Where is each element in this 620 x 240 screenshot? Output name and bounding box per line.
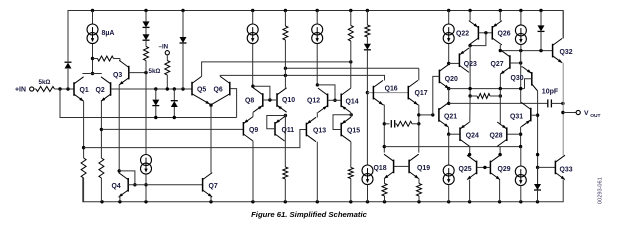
wire Q16 collector — [384, 75, 386, 80]
wire Q25 Q29 base tie — [477, 166, 491, 168]
wire mirror line right — [285, 67, 418, 69]
transistor Q32 — [552, 44, 554, 58]
svg-text:Q30: Q30 — [511, 75, 524, 82]
wire right bias column — [520, 51, 522, 103]
collector bus Q1 Q2 — [82, 73, 101, 75]
wire Q26 emitter to bus — [499, 45, 501, 51]
wire Q30 base drop — [525, 79, 532, 89]
transistor Q2 — [110, 82, 112, 96]
rail junction — [499, 9, 502, 12]
svg-text:Q1: Q1 — [80, 87, 89, 94]
wire Q2 emitter leg — [100, 101, 102, 158]
rail junction — [447, 200, 450, 203]
transistor Q3 — [128, 66, 130, 80]
rail junction — [536, 200, 539, 203]
wire Q13 collector to rail — [316, 142, 318, 202]
wire Q32 base bus — [500, 50, 552, 52]
wire Q4 base to Q7 base — [128, 184, 202, 186]
transistor Q18 — [393, 160, 395, 174]
wire — [34, 88, 36, 90]
wire Q12-Q13 emitter join — [316, 112, 318, 117]
svg-text:OUT: OUT — [590, 113, 600, 119]
svg-text:Q27: Q27 — [491, 61, 504, 68]
wire Q11 base loop — [267, 116, 286, 129]
svg-text:Q32: Q32 — [560, 49, 573, 56]
wire Q12 diode loop — [317, 85, 335, 100]
VOUT terminal — [563, 112, 576, 114]
svg-text:Q2: Q2 — [96, 87, 105, 94]
svg-text:Q24: Q24 — [466, 133, 479, 140]
wire Q31 emitter column — [520, 127, 522, 147]
rail junction — [144, 200, 147, 203]
svg-text:Q13: Q13 — [313, 128, 326, 135]
rail junction — [349, 9, 352, 12]
wire Q4 diode connection — [119, 171, 135, 185]
transistor Q1 — [73, 82, 75, 96]
current source third — [316, 11, 318, 25]
wire Q9 collector to rail — [252, 141, 254, 202]
wire — [55, 88, 75, 90]
wire Q21 collector — [448, 89, 450, 103]
transistor Q7 — [202, 178, 204, 192]
resistor and diode rail x367 — [366, 11, 368, 26]
capacitor compensation network — [384, 123, 389, 125]
wire Q16 emitter column — [383, 104, 384, 106]
svg-text:Q15: Q15 — [347, 128, 360, 135]
svg-text:Q22: Q22 — [456, 31, 469, 38]
wire Q17 emitter column — [417, 104, 420, 106]
svg-text:Q6: Q6 — [214, 86, 223, 93]
svg-text:Q33: Q33 — [560, 166, 573, 173]
rail junction — [100, 200, 103, 203]
wire left output column mid — [469, 96, 471, 122]
node Q20 collector — [447, 62, 450, 65]
rail junction — [539, 9, 542, 12]
wire Q8 Q10 base tie — [263, 99, 277, 101]
svg-text:Q8: Q8 — [245, 98, 254, 105]
transistor Q8 — [262, 93, 264, 107]
node Q1 degeneration tap — [82, 146, 85, 149]
transistor Q26 — [491, 26, 493, 40]
wire Q22 Q26 base tie — [478, 32, 492, 34]
diode rail chain 2 — [182, 11, 184, 38]
current source tail left — [141, 155, 152, 166]
transistor Q23 — [458, 53, 460, 67]
svg-text:Q26: Q26 — [498, 31, 511, 38]
svg-text:Q20: Q20 — [445, 76, 458, 83]
current source fourth lower — [362, 165, 373, 176]
+IN terminal — [30, 87, 34, 91]
rail junction — [366, 200, 369, 203]
wire Q4 emitter — [119, 196, 120, 198]
diode input clamp left — [67, 69, 69, 89]
wire Q15 collector leg — [350, 142, 352, 168]
wire Q21 emitter — [448, 127, 450, 134]
current source second — [252, 11, 254, 25]
transistor Q5 — [191, 82, 193, 96]
wire Q20 base loop — [433, 76, 440, 115]
diode base clamp 2 — [173, 89, 175, 101]
wire Q11 emitter node — [284, 114, 287, 117]
wire Q8-Q9 emitter join — [252, 112, 254, 116]
wire Q21 leg to source — [448, 134, 450, 165]
wire Q24 base — [449, 133, 460, 135]
svg-text:Q18: Q18 — [374, 165, 387, 172]
transistor Q14 — [340, 94, 342, 108]
wire Q22 collector — [469, 11, 471, 21]
rail junction — [284, 200, 287, 203]
rail junction — [251, 200, 254, 203]
wire Q5 collector — [202, 62, 351, 77]
wire Q16 Q17 base line — [367, 92, 408, 94]
svg-text:Q31: Q31 — [510, 113, 523, 120]
svg-text:Q23: Q23 — [464, 61, 477, 68]
wire Q28 base — [507, 133, 521, 135]
transistor Q11 — [274, 122, 276, 136]
node Q2 degeneration tap — [100, 128, 103, 131]
rail junction — [447, 9, 450, 12]
wire Q30 emitter to column — [521, 66, 523, 68]
wire Q30 collector diagonal — [532, 84, 538, 91]
resistor 5k input + — [36, 87, 55, 92]
transistor Q13 — [305, 123, 307, 137]
resistor Q15 leg — [348, 168, 353, 179]
wire Q12 Q14 base tie — [328, 99, 342, 101]
wire Q33 base — [538, 166, 556, 168]
wire Q30 collector column — [537, 91, 539, 184]
node Q12 collector — [316, 83, 319, 86]
resistor Q2 emitter — [99, 158, 104, 178]
bottom V- rail — [83, 178, 563, 202]
transistor Q31 — [530, 108, 532, 122]
wire Q6 collector line — [220, 75, 384, 80]
transistor Q30 — [531, 72, 533, 86]
current source top right — [520, 11, 522, 26]
svg-text:Q5: Q5 — [197, 86, 206, 93]
wire Q18 Q19 base tie — [394, 165, 410, 167]
transistor Q17 — [407, 86, 409, 100]
resistor compensation network — [397, 121, 413, 126]
node Q4 collector — [118, 169, 121, 172]
rail junction — [316, 9, 319, 12]
svg-text:5kΩ: 5kΩ — [39, 79, 51, 86]
wire output column — [562, 63, 564, 155]
rail junction — [251, 9, 254, 12]
wire Q26 collector — [499, 11, 501, 21]
svg-text:Figure 61. Simplified Schemati: Figure 61. Simplified Schematic — [251, 210, 367, 219]
svg-text:Q11: Q11 — [282, 127, 295, 134]
wire Q15 base loop — [333, 115, 351, 130]
rail junction — [209, 200, 212, 203]
svg-text:00293-061: 00293-061 — [598, 177, 604, 204]
rail junction — [144, 9, 147, 12]
wire Q17 collector — [418, 68, 420, 80]
rail junction — [316, 200, 319, 203]
wire Q22 base loop — [470, 33, 486, 46]
node Q4 base tap — [144, 183, 147, 186]
transistor Q33 — [554, 161, 556, 175]
transistor Q29 — [489, 161, 491, 175]
wire Q5 Q6 emitters — [192, 94, 211, 105]
svg-text:–IN: –IN — [159, 44, 169, 51]
wire chain down — [145, 73, 147, 155]
diode base clamp 1 — [155, 89, 157, 100]
svg-text:Q16: Q16 — [385, 85, 398, 92]
svg-text:Q10: Q10 — [282, 97, 295, 104]
transistor Q28 — [506, 127, 508, 141]
wire Q1 emitter leg — [83, 101, 85, 158]
top V+ rail — [68, 11, 563, 63]
resistor output block — [470, 95, 477, 97]
node Q15 emitter — [350, 113, 353, 116]
rail junction — [468, 9, 471, 12]
resistor Q18 emitter — [383, 178, 386, 180]
svg-text:5kΩ: 5kΩ — [149, 68, 161, 75]
diode lower right — [537, 167, 539, 184]
transistor Q19 — [408, 160, 410, 174]
wire Q17-Q20 base bridge — [419, 114, 433, 116]
current source seventh lower — [515, 166, 526, 177]
wire Q6 base loop — [230, 89, 237, 118]
svg-text:Q29: Q29 — [498, 166, 511, 173]
svg-text:Q7: Q7 — [209, 183, 218, 190]
rail junction — [181, 9, 184, 12]
wire stage bias line y146 — [384, 146, 520, 148]
wire Q3 base — [129, 72, 146, 74]
transistor Q9 — [242, 122, 244, 136]
diode top right — [540, 11, 542, 26]
node Q8 collector — [251, 85, 254, 88]
rail junction — [118, 200, 121, 203]
resistor rail x351 — [350, 11, 352, 26]
svg-text:Q17: Q17 — [415, 90, 428, 97]
wire Q28 column join — [499, 146, 501, 154]
wire Q25 collector to rail — [469, 180, 471, 202]
rail junction — [417, 200, 420, 203]
wire second bias line to Q9 — [101, 128, 243, 130]
wire Q31 base — [531, 114, 538, 116]
svg-text:Q4: Q4 — [112, 183, 121, 190]
resistor Q11 leg — [283, 167, 288, 179]
resistor rail x285 — [284, 11, 286, 27]
wire compensation cap line — [449, 102, 548, 104]
resistor 5k input - — [166, 55, 168, 61]
transistor Q15 — [340, 123, 342, 137]
rail junction — [519, 200, 522, 203]
transistor Q24 — [459, 127, 461, 141]
transistor Q16 — [372, 86, 374, 100]
transistor Q21 — [438, 108, 440, 122]
svg-text:Q14: Q14 — [346, 98, 359, 105]
resistor Q1 emitter — [81, 158, 86, 178]
svg-text:V: V — [584, 110, 589, 117]
svg-text:8µA: 8µA — [102, 30, 115, 37]
svg-text:10pF: 10pF — [542, 88, 559, 95]
rail junction — [519, 9, 522, 12]
node Q20 emitter — [447, 87, 450, 90]
svg-text:Q21: Q21 — [444, 113, 457, 120]
wire Q3 emitter column — [118, 85, 120, 171]
wire Q27 base — [510, 62, 521, 64]
transistor Q25 — [476, 161, 478, 175]
wire Q32 collector — [562, 11, 564, 39]
svg-text:Q25: Q25 — [459, 166, 472, 173]
wire emitter bias line right block — [449, 88, 525, 90]
wire -IN base line — [111, 88, 192, 90]
wire first-stage bias to Q13 — [84, 130, 307, 148]
-IN terminal — [165, 51, 169, 55]
node +IN base — [58, 87, 61, 90]
rail junction — [284, 9, 287, 12]
wire — [92, 44, 94, 74]
wire Q20 collector to Q23 base — [449, 62, 460, 64]
transistor Q4 — [127, 178, 129, 192]
wire left output column upper — [469, 45, 471, 96]
transistor Q12 — [327, 94, 329, 108]
rail junction — [498, 200, 501, 203]
wire base line left drop — [60, 89, 237, 118]
transistor Q22 — [477, 26, 479, 40]
wire Q29 collector to rail — [499, 180, 501, 202]
current source fifth — [448, 11, 450, 25]
resistor bias top — [93, 58, 98, 60]
rail junction — [383, 200, 386, 203]
svg-text:+IN: +IN — [15, 87, 26, 94]
svg-text:Q28: Q28 — [490, 133, 503, 140]
resistor 5k bias chain — [144, 47, 149, 61]
svg-text:Q9: Q9 — [249, 127, 258, 134]
diode clamp rail chain — [145, 11, 147, 22]
rail junction — [468, 200, 471, 203]
capacitor 10pF — [547, 99, 549, 107]
current source 8uA — [92, 11, 94, 25]
figure code — [598, 177, 604, 204]
wire Q27 emitter column — [499, 74, 501, 88]
transistor Q10 — [276, 93, 278, 107]
current source sixth lower — [443, 165, 454, 176]
svg-text:Q3: Q3 — [113, 72, 122, 79]
svg-text:Q19: Q19 — [417, 165, 430, 172]
resistor Q19 emitter — [418, 178, 420, 180]
rail junction — [91, 9, 94, 12]
rail junction — [366, 9, 369, 12]
rail junction — [349, 200, 352, 203]
wire Q11 collector leg — [284, 116, 286, 142]
wire to lower current source right — [520, 147, 522, 167]
transistor Q6 — [229, 82, 231, 96]
wire bias column down — [366, 93, 368, 166]
node Q16 Q17 base — [366, 91, 369, 94]
svg-text:Q12: Q12 — [307, 98, 320, 105]
transistor Q20 — [438, 70, 440, 84]
transistor Q27 — [509, 55, 511, 69]
